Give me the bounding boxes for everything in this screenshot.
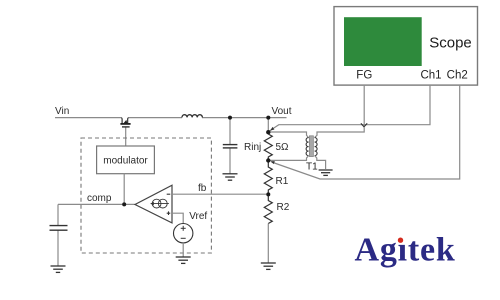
svg-text:fb: fb bbox=[198, 183, 207, 194]
svg-text:FG: FG bbox=[356, 69, 372, 81]
svg-text:5Ω: 5Ω bbox=[276, 142, 290, 153]
svg-text:Vref: Vref bbox=[189, 211, 207, 222]
svg-text:T1: T1 bbox=[306, 161, 318, 172]
svg-text:Scope: Scope bbox=[429, 34, 472, 51]
svg-text:comp: comp bbox=[87, 193, 112, 204]
svg-text:R2: R2 bbox=[277, 202, 290, 213]
svg-text:modulator: modulator bbox=[103, 156, 148, 167]
svg-text:Ch1: Ch1 bbox=[420, 69, 441, 81]
svg-text:Vout: Vout bbox=[272, 106, 292, 117]
svg-text:R1: R1 bbox=[276, 176, 289, 187]
svg-text:Vin: Vin bbox=[55, 106, 69, 117]
svg-text:Agıtek: Agıtek bbox=[355, 231, 456, 268]
svg-text:Rinj: Rinj bbox=[244, 142, 261, 153]
svg-text:Ch2: Ch2 bbox=[447, 69, 468, 81]
